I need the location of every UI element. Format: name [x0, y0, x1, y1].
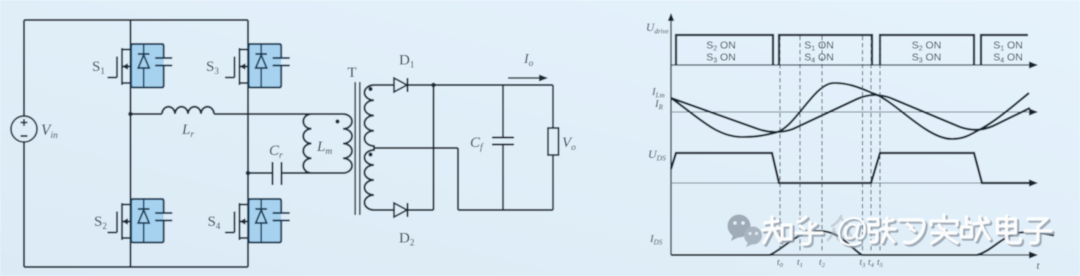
primary polarity dot	[335, 119, 339, 123]
waveform IDS hump 1	[671, 231, 862, 255]
transformer secondary upper winding	[365, 85, 375, 146]
wire secondary top to D1	[374, 84, 394, 86]
node B (right leg midpoint)	[246, 171, 251, 176]
transformer secondary lower winding	[365, 150, 375, 210]
svg-text:S3 ON: S3 ON	[912, 52, 942, 65]
waveform UDS	[671, 153, 1031, 183]
svg-text:S4 ON: S4 ON	[993, 52, 1023, 65]
timing dashed lines t0-t5	[779, 36, 781, 253]
Udrive pulse 4	[981, 35, 1028, 65]
transistor S3	[249, 44, 282, 88]
wire to Cr	[248, 172, 273, 174]
diode D1	[394, 78, 407, 92]
wire bottom rail	[24, 266, 248, 268]
Udrive pulse 1	[676, 35, 773, 65]
transistor S1	[131, 44, 164, 88]
wire secondary bottom to D2	[374, 209, 394, 211]
current zero axis	[671, 111, 1031, 113]
capacitor Cr	[272, 162, 274, 185]
wire output return	[458, 209, 553, 211]
node C (rectifier output)	[431, 83, 436, 88]
wire Lr to primary	[214, 113, 343, 115]
IDS time axis	[671, 254, 1031, 256]
transistor S4	[249, 199, 282, 243]
svg-text:S4 ON: S4 ON	[804, 52, 834, 65]
capacitor Cf	[502, 85, 504, 137]
Udrive baseline	[671, 64, 1031, 66]
wire right bridge leg	[247, 20, 249, 267]
waveform IDS hump 2	[862, 232, 1054, 255]
watermark text 知乎 @张飞实战电子	[763, 211, 1053, 250]
curve IR (resonant current)	[671, 83, 1029, 139]
svg-text:@: @	[835, 211, 869, 248]
wire left rail upper	[23, 20, 25, 116]
wire D2 riser to node C	[433, 85, 435, 210]
resistor Vo load	[548, 128, 559, 155]
UDS zero axis	[671, 182, 1031, 184]
Udrive pulse 2	[779, 35, 872, 65]
wire secondary joint	[373, 145, 375, 151]
wire to Lr	[131, 113, 163, 115]
wire center tap drop	[457, 148, 459, 210]
inductor Lr	[162, 107, 214, 114]
Udrive pulse 3	[880, 35, 974, 65]
wire load branch	[552, 85, 554, 128]
wire center tap	[374, 147, 458, 149]
node A (left leg midpoint)	[128, 112, 133, 117]
wire D2 cathode run	[408, 209, 434, 211]
svg-text:S3 ON: S3 ON	[706, 52, 736, 65]
wire left rail lower	[23, 142, 25, 267]
inductor Lm	[303, 114, 311, 173]
secondary upper polarity dot	[368, 87, 372, 91]
voltage source Vin	[11, 116, 37, 142]
wire left bridge leg	[130, 20, 132, 267]
transformer core	[354, 82, 356, 215]
waveform vertical axis	[670, 15, 672, 255]
watermark wechat icon	[728, 215, 763, 248]
transistor S2	[131, 199, 164, 243]
diode D2	[394, 203, 407, 217]
curve ILm (magnetizing current)	[671, 95, 1030, 132]
wire top rail	[24, 19, 248, 21]
output current Io arrow	[508, 77, 541, 79]
wire Cr to primary	[282, 172, 344, 174]
wire D1 to output node	[408, 84, 554, 86]
svg-text:T: T	[347, 65, 356, 81]
secondary lower polarity dot	[368, 152, 372, 156]
transformer T primary winding	[343, 114, 352, 173]
